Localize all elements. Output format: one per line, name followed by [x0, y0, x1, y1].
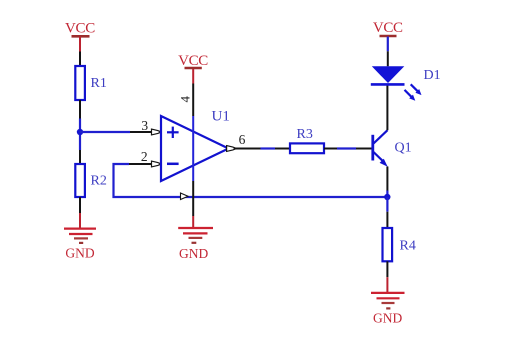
wire R1 to R2: [79, 119, 81, 151]
svg-text:GND: GND: [179, 246, 208, 261]
wire VCC to R1: [79, 52, 81, 67]
wire pin6 to R3: [261, 147, 276, 149]
power symbol VCC (middle, op-amp): [178, 53, 208, 84]
ground GND (middle): [178, 216, 213, 261]
svg-text:R3: R3: [297, 127, 313, 142]
pin R3 right: [324, 148, 337, 150]
wire node B to R4: [386, 197, 388, 212]
wire R3 to Q1 base: [337, 147, 356, 149]
svg-text:2: 2: [141, 149, 148, 164]
pin R2 top: [79, 150, 81, 164]
pin LED anode: [387, 51, 389, 66]
pin 6 (op-amp output): [227, 132, 261, 151]
pin op-amp V-: [181, 181, 194, 216]
LED D1: [371, 66, 441, 100]
pin 2 (op-amp -): [129, 149, 160, 167]
pin R4 bottom: [386, 261, 388, 277]
wire feedback (pin 2 to emitter node): [114, 164, 388, 197]
pin Q1 base: [356, 148, 372, 150]
svg-text:VCC: VCC: [65, 20, 95, 36]
svg-text:R1: R1: [91, 76, 107, 91]
resistor R2: [75, 164, 107, 197]
ground GND (right): [371, 277, 405, 325]
ground GND (left): [64, 213, 96, 261]
transistor Q1: [373, 130, 412, 167]
pin R2 bottom: [79, 197, 81, 213]
power symbol VCC (left): [65, 20, 95, 51]
svg-text:GND: GND: [373, 311, 402, 326]
svg-text:R4: R4: [400, 239, 416, 254]
wire op-amp power vertical: [192, 116, 194, 181]
resistor R4: [383, 228, 416, 261]
pin R1 bottom: [79, 100, 81, 119]
svg-text:GND: GND: [65, 246, 94, 261]
resistor R3: [290, 127, 324, 153]
svg-text:3: 3: [141, 118, 148, 133]
svg-text:D1: D1: [424, 68, 441, 83]
svg-text:VCC: VCC: [373, 20, 403, 36]
svg-text:VCC: VCC: [178, 53, 208, 69]
wire Q1 collector to LED: [386, 84, 388, 130]
pin 4 (op-amp V+): [178, 84, 194, 117]
pin 3 (op-amp +): [130, 118, 160, 135]
wire Q1 emitter down: [386, 167, 388, 191]
svg-text:4: 4: [178, 96, 193, 103]
svg-text:Q1: Q1: [395, 141, 412, 156]
node A junction: [77, 129, 83, 135]
op-amp U1 body: [161, 109, 230, 182]
svg-text:U1: U1: [212, 109, 230, 125]
power symbol VCC (right, LED): [373, 20, 403, 51]
svg-text:6: 6: [239, 132, 246, 147]
resistor R1: [75, 66, 107, 100]
pin R4 top: [386, 212, 388, 228]
node B junction: [384, 194, 390, 200]
pin R3 left: [275, 148, 290, 150]
wire node A to pin 3: [80, 131, 130, 133]
svg-text:R2: R2: [91, 174, 107, 189]
